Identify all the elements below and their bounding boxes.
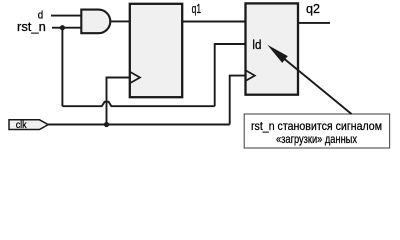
svg-text:q2: q2 xyxy=(306,1,320,16)
svg-text:ld: ld xyxy=(252,37,261,52)
svg-text:rst_n становится сигналом: rst_n становится сигналом xyxy=(251,119,382,133)
svg-text:q1: q1 xyxy=(192,1,202,16)
svg-text:«загрузки» данных: «загрузки» данных xyxy=(276,132,358,146)
svg-text:clk: clk xyxy=(16,120,28,131)
svg-text:rst_n: rst_n xyxy=(17,19,46,34)
